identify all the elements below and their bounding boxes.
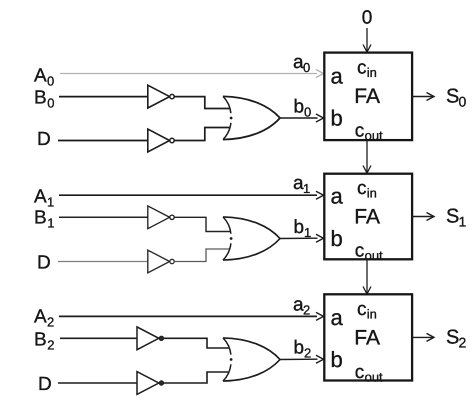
svg-text:0: 0 bbox=[303, 60, 310, 75]
wire OR2 output to FA2 pin b bbox=[280, 234, 324, 242]
wire A1 to FA2 pin a bbox=[59, 191, 324, 199]
wire OR1 output to FA1 pin b bbox=[280, 114, 324, 122]
inverter (NOT gate) on D bit 2 bbox=[137, 372, 164, 395]
inverter (NOT gate) on D bit 1 bbox=[148, 250, 174, 273]
svg-text:B: B bbox=[34, 208, 47, 229]
inverter (NOT gate) on B1 bbox=[148, 206, 174, 229]
output label S1 bbox=[446, 206, 467, 230]
FA1 label FA bbox=[354, 85, 380, 108]
svg-text:B: B bbox=[34, 330, 47, 351]
svg-text:b: b bbox=[294, 97, 305, 118]
node label A0 bbox=[34, 66, 54, 89]
output label S2 bbox=[446, 327, 467, 351]
svg-text:a: a bbox=[331, 184, 344, 209]
wire FA1 output to S0 bbox=[412, 93, 434, 101]
OR gate OR1 bbox=[223, 96, 280, 139]
wire inverter D1 output to OR2 input (step up) bbox=[174, 249, 230, 262]
pin label a1 bbox=[293, 173, 310, 196]
FA3 pin label a bbox=[331, 305, 344, 330]
svg-text:2: 2 bbox=[47, 338, 54, 353]
OR gate OR3 bbox=[223, 338, 280, 381]
FA2 label FA bbox=[354, 206, 380, 229]
svg-text:1: 1 bbox=[303, 181, 310, 196]
full adder FA2 box bbox=[324, 174, 412, 260]
svg-text:2: 2 bbox=[47, 315, 54, 330]
node label D (bit 2) bbox=[38, 374, 52, 395]
wire inverter B1 output to OR2 input (step down) bbox=[174, 217, 230, 231]
inverter (NOT gate) on B0 bbox=[148, 85, 174, 108]
svg-text:0: 0 bbox=[362, 8, 373, 29]
inverter (NOT gate) on D bit 0 bbox=[148, 129, 174, 152]
FA2 pin label cin bbox=[357, 178, 377, 200]
FA1 pin label cout bbox=[355, 120, 383, 142]
node label D (bit 1) bbox=[37, 253, 51, 274]
svg-text:b: b bbox=[294, 217, 305, 238]
svg-text:c: c bbox=[357, 299, 367, 320]
node label A2 bbox=[34, 307, 54, 330]
svg-text:FA: FA bbox=[354, 206, 380, 229]
full adder FA1 box bbox=[324, 53, 412, 141]
svg-text:in: in bbox=[367, 185, 377, 200]
svg-text:a: a bbox=[331, 305, 344, 330]
FA3 pin label cout bbox=[355, 362, 383, 384]
wire inverter D2 output to OR3 input (step up) bbox=[164, 372, 231, 383]
svg-text:1: 1 bbox=[47, 195, 54, 210]
FA2 pin label cout bbox=[355, 241, 383, 263]
wire FA1 c_out to FA2 c_in bbox=[363, 140, 371, 173]
svg-text:1: 1 bbox=[47, 216, 54, 231]
inverter (NOT gate) on B2 bbox=[137, 327, 164, 350]
node label D (bit 0) bbox=[37, 129, 51, 150]
pin label b1 bbox=[294, 217, 312, 240]
svg-text:c: c bbox=[357, 178, 367, 199]
svg-text:B: B bbox=[34, 88, 47, 109]
wire D to inverter (bit 0) bbox=[58, 140, 148, 142]
wire D to inverter (bit 2) bbox=[58, 382, 137, 384]
svg-text:S: S bbox=[446, 206, 459, 228]
wire inverter D0 output to OR1 input (step up) bbox=[174, 128, 230, 141]
output label S0 bbox=[446, 86, 467, 110]
wire B0 to inverter bbox=[59, 96, 148, 98]
FA2 pin label b bbox=[331, 226, 343, 251]
svg-text:D: D bbox=[38, 374, 52, 395]
svg-text:S: S bbox=[446, 327, 459, 349]
svg-text:S: S bbox=[446, 86, 459, 108]
wire inverter B2 output to OR3 input (step down) bbox=[164, 338, 231, 348]
wire D to inverter (bit 1) bbox=[58, 261, 148, 263]
pin label a2 bbox=[293, 295, 310, 318]
svg-text:in: in bbox=[367, 307, 377, 322]
svg-text:in: in bbox=[367, 65, 377, 80]
svg-text:D: D bbox=[37, 129, 51, 150]
svg-text:c: c bbox=[357, 58, 367, 79]
svg-text:1: 1 bbox=[459, 213, 467, 229]
node label B0 bbox=[34, 88, 54, 111]
svg-text:D: D bbox=[37, 253, 51, 274]
wire FA2 c_out to FA3 c_in bbox=[363, 259, 371, 294]
wire OR3 output to FA3 pin b bbox=[280, 355, 324, 363]
wire A2 to FA3 pin a bbox=[59, 312, 324, 320]
svg-text:b: b bbox=[331, 347, 343, 372]
wire FA2 output to S1 bbox=[412, 213, 434, 221]
svg-text:A: A bbox=[34, 66, 47, 87]
node label B2 bbox=[34, 330, 54, 353]
svg-text:2: 2 bbox=[304, 345, 311, 360]
wire B1 to inverter bbox=[59, 216, 148, 218]
svg-text:0: 0 bbox=[47, 96, 54, 111]
svg-text:1: 1 bbox=[304, 225, 311, 240]
svg-text:b: b bbox=[294, 338, 305, 359]
constant 0 input bbox=[362, 8, 373, 29]
svg-text:0: 0 bbox=[459, 93, 467, 109]
wire inverter B0 output to OR1 input (step down) bbox=[174, 97, 230, 109]
svg-text:2: 2 bbox=[459, 334, 467, 350]
wire A0 to FA1 pin a bbox=[60, 70, 324, 78]
OR gate OR2 bbox=[223, 217, 280, 260]
svg-text:b: b bbox=[331, 106, 343, 131]
svg-text:FA: FA bbox=[354, 327, 380, 350]
FA2 pin label a bbox=[331, 184, 344, 209]
pin label a0 bbox=[293, 52, 310, 75]
wire FA3 output to S2 bbox=[412, 333, 434, 341]
pin label b0 bbox=[294, 97, 312, 120]
FA1 pin label cin bbox=[357, 58, 377, 80]
svg-text:A: A bbox=[34, 187, 47, 208]
FA1 pin label a bbox=[331, 63, 344, 88]
FA3 label FA bbox=[354, 327, 380, 350]
svg-text:0: 0 bbox=[304, 104, 311, 119]
svg-text:b: b bbox=[331, 226, 343, 251]
FA1 pin label b bbox=[331, 106, 343, 131]
svg-text:c: c bbox=[355, 241, 365, 262]
node label B1 bbox=[34, 208, 54, 231]
svg-text:2: 2 bbox=[303, 302, 310, 317]
svg-text:0: 0 bbox=[47, 74, 54, 89]
wire B2 to inverter bbox=[60, 337, 137, 339]
svg-text:c: c bbox=[355, 362, 365, 383]
svg-text:out: out bbox=[365, 369, 383, 384]
svg-text:FA: FA bbox=[354, 85, 380, 108]
wire constant 0 into FA1 c_in bbox=[363, 28, 371, 52]
FA3 pin label cin bbox=[357, 299, 377, 321]
pin label b2 bbox=[294, 338, 312, 361]
node label A1 bbox=[34, 187, 54, 210]
FA3 pin label b bbox=[331, 347, 343, 372]
full adder FA3 box bbox=[324, 294, 412, 380]
svg-text:a: a bbox=[331, 63, 344, 88]
svg-text:A: A bbox=[34, 307, 47, 328]
svg-text:c: c bbox=[355, 120, 365, 141]
